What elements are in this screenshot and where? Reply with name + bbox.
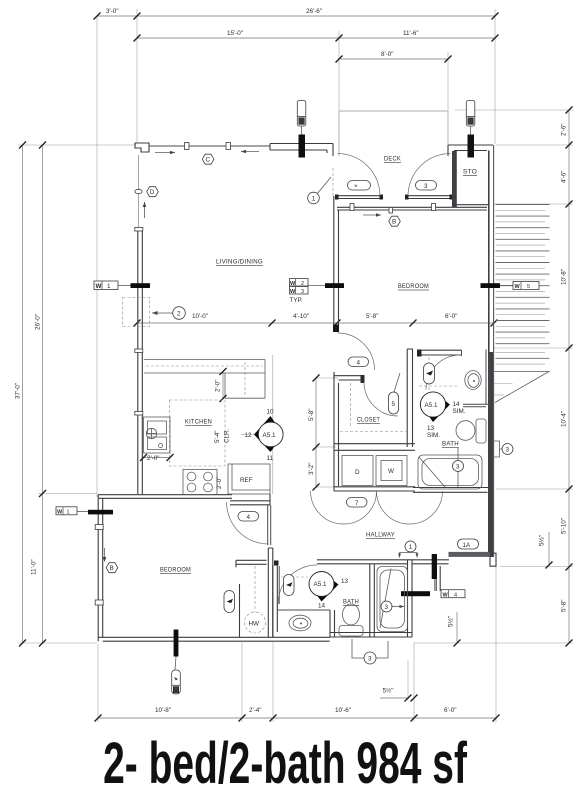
- dimension row bottom: [95, 707, 500, 722]
- svg-text:5'-8": 5'-8": [561, 599, 568, 612]
- dim 5half right: [538, 532, 553, 569]
- wall below deck: [337, 207, 487, 210]
- oval 4 bedroom2: [348, 357, 369, 367]
- top wall double post to step: [305, 144, 333, 157]
- hexagon B bedroom1: [106, 563, 118, 573]
- svg-text:2'-0": 2'-0": [147, 455, 160, 462]
- hexagon D: [147, 187, 159, 197]
- top wall living (thin with window): [149, 145, 270, 147]
- hw heater: [245, 566, 266, 633]
- tub2: [377, 567, 408, 632]
- circle 1 porch bracket: [398, 541, 419, 558]
- svg-text:10'-6": 10'-6": [335, 707, 351, 714]
- oval 3 deck: [416, 181, 437, 191]
- tub1: [418, 455, 482, 489]
- dimension col right: [561, 107, 573, 647]
- column tag left: [297, 101, 306, 135]
- svg-text:1A: 1A: [463, 542, 472, 549]
- oval 4 kitchen door: [238, 512, 259, 522]
- svg-text:2- bed/2-bath 984 sf: 2- bed/2-bath 984 sf: [103, 731, 467, 787]
- bath2 south wall: [330, 633, 412, 638]
- porch wall right: [412, 560, 449, 564]
- svg-text:STO: STO: [463, 169, 477, 176]
- svg-text:3'-0": 3'-0": [106, 8, 119, 15]
- window jamb a: [185, 143, 190, 150]
- washer: [376, 456, 407, 486]
- bath1 top wall jamb: [417, 350, 422, 357]
- svg-text:2'-0": 2'-0": [216, 476, 223, 489]
- sink bowls: [148, 421, 167, 450]
- closet laundry divider: [334, 444, 415, 451]
- small sq b2: [389, 208, 393, 214]
- svg-text:A5.1: A5.1: [425, 402, 438, 409]
- svg-text:2'-0": 2'-0": [215, 379, 222, 392]
- faucet: [146, 428, 162, 447]
- room label deck: [384, 156, 401, 163]
- svg-text:W: W: [443, 592, 449, 598]
- svg-text:11'-6": 11'-6": [403, 30, 419, 37]
- sto west wall: [452, 151, 457, 207]
- svg-text:4: 4: [357, 360, 361, 367]
- svg-text:14: 14: [453, 401, 461, 408]
- porch post poche: [432, 554, 437, 579]
- svg-text:5: 5: [527, 284, 530, 290]
- svg-text:10'-0": 10'-0": [192, 313, 208, 320]
- kitchen clearance dashed: [170, 400, 226, 466]
- black post left: [299, 135, 306, 158]
- room label bath2: [343, 599, 359, 606]
- closet door jamb: [361, 375, 365, 383]
- svg-text:A5.1: A5.1: [263, 432, 276, 439]
- sink dim 2ft: [140, 454, 174, 462]
- svg-text:10'-8": 10'-8": [155, 707, 171, 714]
- basin bath1: [465, 371, 481, 390]
- svg-text:BEDROOM: BEDROOM: [398, 283, 429, 290]
- deck outline: [339, 111, 448, 156]
- bath2 top wall right: [317, 560, 412, 564]
- door stop a: [350, 204, 354, 211]
- pill tag bath1: [424, 363, 435, 384]
- closet top wall: [334, 372, 363, 380]
- w2w3 marker: [290, 279, 345, 305]
- svg-text:13: 13: [341, 578, 349, 585]
- corner block top-left: [135, 143, 149, 152]
- svg-text:1: 1: [409, 544, 413, 551]
- room label bedroom1: [160, 567, 191, 574]
- svg-text:D: D: [355, 469, 360, 476]
- svg-text:11: 11: [267, 455, 274, 462]
- bed1 west jamb1: [95, 525, 103, 530]
- door arc deck left: [338, 154, 381, 197]
- svg-text:2: 2: [301, 281, 304, 287]
- svg-text:TYP.: TYP.: [290, 297, 303, 304]
- door arc closet: [364, 382, 398, 416]
- bedroom2 west wall cap: [333, 325, 339, 333]
- svg-text:BEDROOM: BEDROOM: [160, 567, 191, 574]
- svg-text:SIM.: SIM.: [453, 408, 466, 415]
- toilet bath1: [456, 419, 486, 443]
- FIXTURES: [56, 154, 550, 665]
- svg-text:LIVING/DINING: LIVING/DINING: [216, 259, 263, 266]
- diamond A51 bath2: [309, 572, 349, 610]
- bath1 dashed clearance: [419, 357, 459, 404]
- vanity divider: [278, 609, 331, 611]
- bed1 wall arrow: [103, 548, 107, 562]
- svg-text:5½": 5½": [538, 535, 546, 546]
- bath2 mid wall: [370, 564, 375, 637]
- room label hallway: [366, 532, 395, 539]
- hw nook east wall: [268, 548, 273, 637]
- svg-text:3: 3: [456, 464, 460, 471]
- hexagon B bedroom2: [389, 216, 401, 226]
- top wall right segment: [448, 145, 493, 156]
- svg-text:12: 12: [245, 432, 253, 439]
- svg-text:2'-6": 2'-6": [561, 123, 568, 136]
- w4 marker: [435, 579, 465, 598]
- circle3 right bracket: [494, 441, 514, 457]
- closet east wall: [407, 349, 412, 447]
- bath2 west wall: [273, 565, 278, 637]
- svg-text:W: W: [388, 468, 394, 475]
- room label sto: [463, 169, 477, 176]
- svg-text:7: 7: [355, 500, 359, 507]
- svg-text:26'-6": 26'-6": [306, 8, 322, 15]
- svg-text:HW: HW: [249, 621, 260, 628]
- pill tag bedroom1: [224, 591, 235, 613]
- svg-text:5'-8": 5'-8": [366, 313, 379, 320]
- svg-text:KITCHEN: KITCHEN: [185, 419, 212, 426]
- black post right: [468, 135, 475, 158]
- door arc deck right: [408, 154, 451, 197]
- svg-text:4'-10": 4'-10": [293, 313, 309, 320]
- svg-text:6'-0": 6'-0": [444, 707, 457, 714]
- closet shelf dashed: [340, 431, 406, 433]
- svg-text:26'-0": 26'-0": [35, 314, 42, 330]
- tub1 tag circle3: [453, 448, 464, 487]
- svg-text:REF: REF: [240, 477, 253, 484]
- svg-text:5½": 5½": [447, 616, 455, 627]
- svg-text:5'-10": 5'-10": [561, 518, 568, 534]
- bath2 bottom bracket tag3: [352, 639, 388, 664]
- window jamb b: [226, 143, 231, 150]
- svg-text:14: 14: [318, 603, 326, 610]
- kitchen south wall: [98, 495, 232, 499]
- room label kitchen: [185, 419, 212, 426]
- bath1 south wall: [413, 488, 493, 493]
- svg-text:5½": 5½": [383, 687, 394, 695]
- bedroom1 south wall: [98, 637, 330, 641]
- kitchen counter dashed center: [146, 365, 263, 367]
- svg-text:4'-6": 4'-6": [561, 170, 568, 183]
- pill tag bath2: [284, 575, 295, 596]
- basin bath2: [289, 615, 311, 631]
- room label closet: [357, 417, 380, 424]
- oval 7 hall: [347, 498, 368, 508]
- w5 marker: [481, 282, 540, 291]
- window glyph left wall: [135, 189, 142, 193]
- svg-text:W: W: [290, 281, 296, 287]
- column tag right: [466, 101, 475, 135]
- bath2 top wall left jamb: [274, 561, 279, 566]
- room label living: [216, 259, 263, 266]
- svg-text:37'-0": 37'-0": [15, 383, 22, 399]
- svg-text:13: 13: [427, 425, 435, 432]
- svg-text:2'-4": 2'-4": [249, 707, 262, 714]
- closet west wall: [334, 372, 339, 491]
- svg-text:1: 1: [67, 510, 70, 516]
- right exterior wall: [488, 151, 490, 558]
- svg-text:W: W: [57, 510, 63, 516]
- svg-text:C: C: [206, 156, 211, 163]
- left wall jamb mark1: [135, 228, 143, 232]
- arrow bedroom2: [363, 213, 381, 217]
- porch deck bar: [449, 552, 491, 557]
- svg-text:8'-0": 8'-0": [381, 51, 394, 58]
- svg-text:B: B: [392, 218, 396, 225]
- svg-text:15'-0": 15'-0": [227, 30, 243, 37]
- svg-text:11'-0": 11'-0": [31, 559, 38, 575]
- laundry south wall: [334, 487, 415, 491]
- dashed rect left w1: [123, 298, 150, 327]
- door arc bath2: [278, 565, 317, 604]
- svg-text:6'-0": 6'-0": [445, 313, 458, 320]
- dimension col closet x316: [308, 375, 338, 491]
- diamond A51 kitchen: [245, 409, 284, 463]
- oval 5 closet: [389, 373, 401, 414]
- hw nook top wall: [236, 560, 267, 567]
- dim 5half bottom: [447, 612, 461, 647]
- toilet bath2: [339, 604, 363, 636]
- hall arc left: [311, 491, 377, 524]
- dim 2ft counter: [215, 368, 227, 402]
- svg-text:CLR.: CLR.: [224, 428, 231, 443]
- svg-text:SIM.: SIM.: [427, 432, 440, 439]
- svg-text:3: 3: [385, 604, 389, 611]
- svg-text:10: 10: [267, 409, 275, 416]
- dimension col left 26ft / 11ft: [31, 142, 47, 647]
- stairs triangle: [494, 372, 549, 403]
- svg-text:2: 2: [177, 311, 181, 318]
- dimension row top2: [134, 30, 499, 42]
- dimension row top3 8ft: [336, 51, 452, 63]
- WALLS: [95, 111, 496, 694]
- south wall poche: [174, 630, 179, 657]
- svg-text:BATH: BATH: [442, 441, 459, 448]
- svg-text:3'-2": 3'-2": [308, 462, 315, 475]
- bath1 vanity alcove: [462, 350, 490, 408]
- svg-text:DECK: DECK: [384, 156, 401, 163]
- vanity east wall: [330, 610, 335, 637]
- svg-text:3: 3: [368, 656, 372, 663]
- door arc kitchen-bedroom: [227, 502, 269, 544]
- bath2 east wall: [408, 560, 413, 637]
- poche tag pill: [172, 670, 181, 694]
- svg-text:B: B: [110, 565, 114, 572]
- svg-text:3: 3: [506, 447, 510, 454]
- sink cabinet: [144, 417, 171, 453]
- room label bath1: [442, 441, 459, 448]
- svg-text:HALLWAY: HALLWAY: [366, 532, 395, 539]
- dryer: [342, 456, 373, 486]
- bedroom2 west wall: [334, 196, 339, 332]
- door stop b: [432, 204, 436, 211]
- svg-text:D: D: [150, 189, 155, 196]
- kitchen counter top band: [144, 360, 265, 374]
- circle 1 deck: [308, 177, 331, 204]
- stove: [183, 470, 217, 495]
- door arc bedroom2 entry: [338, 333, 375, 370]
- svg-text:10'-4": 10'-4": [561, 411, 568, 427]
- svg-text:5: 5: [392, 401, 396, 408]
- top wall double left of post: [270, 144, 299, 151]
- svg-text:×: ×: [354, 183, 358, 190]
- svg-text:W: W: [290, 289, 296, 295]
- lower-left exterior wall: [98, 495, 103, 642]
- room label bedroom2: [398, 283, 429, 290]
- poche tag leader: [175, 657, 176, 671]
- arrow left on top wall: [241, 150, 259, 154]
- diamond A51 bath1: [420, 392, 465, 440]
- w1 marker upper: [94, 281, 150, 290]
- svg-text:5'-8": 5'-8": [308, 408, 315, 421]
- porch stub wall: [436, 566, 440, 591]
- circle 2 leader: [152, 307, 185, 320]
- ref south wall: [230, 494, 270, 505]
- svg-text:1: 1: [312, 196, 316, 203]
- svg-text:CLOSET: CLOSET: [357, 417, 380, 424]
- door arc bath1: [426, 355, 461, 390]
- left wall jamb mark3: [135, 412, 143, 416]
- svg-text:3: 3: [424, 183, 428, 190]
- deck threshold right: [405, 195, 453, 200]
- oval 2C deck: [348, 181, 371, 191]
- svg-text:4: 4: [247, 514, 251, 521]
- door leaf kitchen-bedroom: [268, 505, 271, 545]
- svg-text:W: W: [96, 283, 102, 290]
- svg-text:A5.1: A5.1: [314, 581, 327, 588]
- bed1 west jamb2: [95, 600, 103, 605]
- bath1 top wall: [417, 350, 462, 355]
- dimension col left 37ft: [15, 142, 27, 647]
- dim 5half wall bottom: [380, 660, 418, 702]
- w1 marker lower: [56, 507, 113, 516]
- left wall jamb mark2: [135, 349, 143, 353]
- svg-text:1: 1: [107, 283, 111, 290]
- arrow right on top wall: [155, 151, 175, 155]
- hexagon C: [202, 154, 214, 164]
- REF box: [228, 464, 270, 494]
- bedroom1 east wall: [239, 584, 241, 637]
- svg-text:10'-8": 10'-8": [561, 269, 568, 285]
- dimension row top1: [94, 8, 499, 20]
- svg-text:BATH: BATH: [343, 599, 359, 606]
- deck door dashed leaf: [332, 168, 334, 196]
- up arrow left wall: [143, 202, 147, 218]
- oval 1A porch: [458, 539, 479, 549]
- stairs hatch: [496, 205, 550, 365]
- deck threshold left: [335, 195, 383, 200]
- svg-text:5'-4": 5'-4": [214, 430, 221, 443]
- closet dashed side: [350, 383, 352, 428]
- svg-text:3: 3: [301, 289, 304, 295]
- svg-text:W: W: [515, 284, 521, 290]
- kitchen counter right leg: [225, 360, 265, 399]
- dimension row middle y323: [134, 313, 498, 327]
- tub2 tag: [381, 601, 404, 612]
- hall arc right: [377, 491, 443, 524]
- svg-text:4: 4: [454, 592, 457, 598]
- left exterior wall upper: [138, 155, 140, 228]
- w4 poche: [401, 591, 430, 596]
- counter leg dashed: [244, 362, 246, 396]
